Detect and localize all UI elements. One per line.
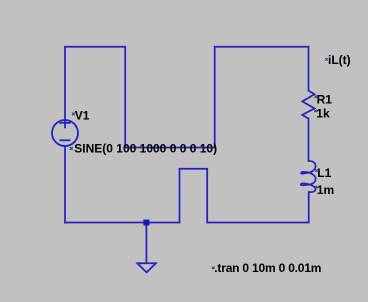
wire below V1 — [64, 146, 66, 223]
wire notch right vertical — [206, 169, 208, 223]
wire notch top horizontal — [180, 168, 208, 170]
tick mark R1 — [315, 95, 317, 97]
wire top-left horizontal — [65, 46, 125, 48]
V1 minus sign — [60, 139, 71, 141]
wire above R1 — [308, 47, 310, 91]
svg-text:R1: R1 — [317, 92, 333, 106]
ground symbol triangle — [137, 263, 156, 272]
wire left-loop right vertical — [124, 47, 126, 148]
svg-text:1k: 1k — [316, 107, 330, 121]
svg-text:V1: V1 — [75, 109, 90, 123]
svg-text:.tran 0 10m 0 0.01m: .tran 0 10m 0 0.01m — [214, 261, 321, 275]
ground stem wire — [145, 223, 147, 264]
tick mark L1 — [315, 169, 317, 171]
inductor L1 coil — [301, 161, 316, 192]
voltage source V1 circle — [52, 120, 78, 146]
V1 plus sign — [59, 122, 71, 124]
tick mark V1 — [72, 113, 75, 116]
svg-text:SINE(0 100 1000 0 0 0 10): SINE(0 100 1000 0 0 0 10) — [74, 141, 217, 155]
resistor R1 zigzag — [302, 91, 314, 119]
wire left vertical (V1 top) — [64, 47, 66, 128]
tick mark SINE — [70, 147, 73, 150]
wire top-right horizontal — [215, 46, 309, 48]
tick mark 1m — [315, 186, 317, 188]
wire mid horizontal — [125, 147, 215, 149]
wire below L1 — [308, 192, 310, 223]
tick mark iL(t) — [325, 58, 327, 60]
wire notch left vertical — [179, 169, 181, 223]
tick mark 1k — [314, 110, 316, 112]
wire right-loop left vertical — [214, 47, 216, 148]
wire bottom left horizontal — [65, 222, 180, 224]
wire bottom right horizontal — [207, 222, 309, 224]
tick mark .tran — [212, 267, 214, 269]
junction dot node — [143, 220, 149, 226]
svg-text:L1: L1 — [317, 166, 331, 180]
svg-text:iL(t): iL(t) — [328, 53, 351, 67]
svg-text:1m: 1m — [317, 183, 334, 197]
wire between R1 and L1 — [308, 119, 310, 161]
